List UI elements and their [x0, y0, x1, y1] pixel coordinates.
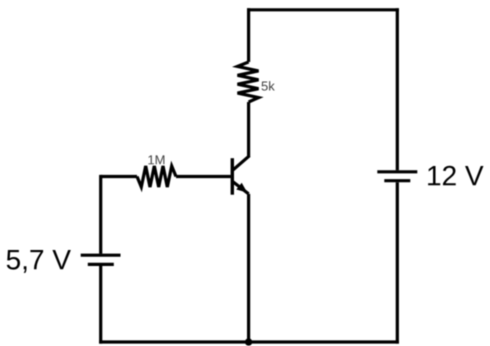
wire: collector upper segment — [247, 8, 250, 62]
transistor Q1 (NPN) — [232, 156, 249, 195]
positive plate (long) — [81, 254, 121, 257]
wire: emitter vertical — [247, 194, 250, 342]
battery V1 5,7 V — [81, 255, 121, 264]
wire: collector lower segment — [247, 102, 250, 156]
wire: left vertical lower — [99, 266, 102, 344]
wire: left vertical upper — [99, 175, 102, 254]
resistor R1 5k (vertical zigzag) — [238, 62, 259, 102]
resistor R2 1M (horizontal zigzag) — [137, 166, 176, 187]
wire: bottom rail — [99, 340, 399, 343]
wire: top rail — [247, 8, 399, 11]
negative plate (short) — [384, 179, 410, 182]
negative plate (short) — [88, 263, 114, 266]
junction node (emitter to bottom rail) — [245, 338, 252, 345]
emitter diagonal — [232, 181, 248, 194]
base bar — [231, 158, 234, 195]
emitter arrowhead — [236, 183, 247, 193]
wire: base left segment — [101, 175, 137, 178]
wire: right vertical upper — [396, 8, 399, 170]
label 5k — [262, 81, 275, 91]
wire: right vertical lower — [396, 182, 399, 343]
label 5,7 V — [7, 250, 71, 273]
positive plate (long) — [377, 170, 417, 173]
label 1M — [148, 155, 164, 164]
battery V2 12 V — [377, 172, 417, 181]
label 12 V — [428, 166, 483, 186]
wire: base right segment — [176, 175, 231, 178]
collector diagonal — [232, 156, 249, 171]
